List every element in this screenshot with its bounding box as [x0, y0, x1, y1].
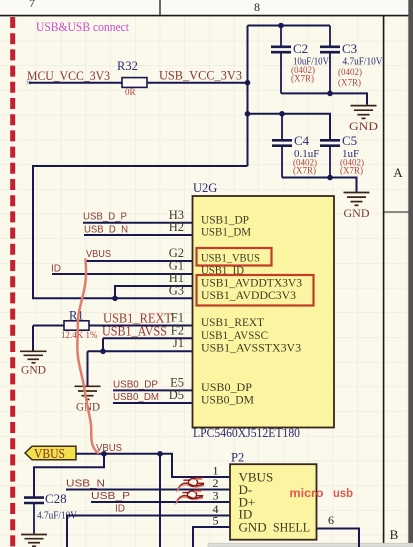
junction J1 [100, 349, 106, 355]
no-ERC cross [27, 81, 31, 85]
wire VBUS to C28 [34, 454, 104, 497]
svg-text:D5: D5 [169, 388, 184, 402]
svg-text:C2: C2 [293, 41, 308, 56]
svg-text:LPC5460XJ512ET180: LPC5460XJ512ET180 [193, 426, 300, 440]
wire USB_P pin3 [91, 501, 230, 503]
junction C4 top [279, 111, 285, 117]
resistor R1 [33, 325, 64, 327]
svg-text:H2: H2 [169, 220, 184, 234]
capacitor C2 [271, 26, 291, 94]
sheet top border [0, 15, 413, 17]
ground GND5 (C28) [21, 535, 47, 547]
wire VCC vertical column [247, 26, 249, 167]
svg-text:(0402): (0402) [338, 67, 362, 77]
svg-text:ID: ID [115, 504, 125, 515]
junction VCC column at 82.7 [245, 80, 251, 86]
svg-text:5: 5 [213, 514, 219, 528]
svg-text:USB_P: USB_P [91, 491, 130, 502]
wire ID pin4 [67, 516, 230, 547]
power port VBUS [25, 446, 76, 459]
wire C2 C3 top rail [248, 25, 331, 27]
svg-text:GND: GND [21, 363, 46, 377]
wire C2 C3 bottom rail [281, 93, 367, 104]
svg-text:USB_D_P: USB_D_P [83, 211, 127, 222]
capacitor C4 [272, 114, 292, 178]
junction VCC column at 113.8 [245, 111, 251, 117]
sheet right border [383, 15, 385, 547]
svg-text:3: 3 [213, 489, 219, 503]
annotation red box USB1_VBUS [197, 248, 272, 266]
svg-text:SHELL: SHELL [273, 520, 310, 535]
svg-text:G3: G3 [169, 283, 184, 297]
svg-text:R1: R1 [69, 309, 84, 323]
svg-text:(X7R): (X7R) [291, 73, 314, 83]
svg-text:7: 7 [29, 0, 35, 10]
svg-text:GND: GND [239, 520, 267, 535]
screen right dark edge [408, 0, 413, 547]
wire MCU_VCC_3V3 [29, 82, 122, 84]
wire to GND4 [87, 351, 89, 386]
svg-text:J1: J1 [173, 336, 184, 350]
resistor R32 [122, 78, 147, 88]
junction VBUS b [157, 451, 163, 457]
svg-text:R32: R32 [117, 59, 138, 73]
capacitor C3 [320, 26, 340, 94]
annotation scribble pin2 [177, 478, 204, 492]
wire AVDD feed (VCC to H1 G3) [33, 166, 248, 298]
zone tick top [159, 0, 161, 16]
svg-text:0R: 0R [125, 87, 136, 97]
svg-text:USB_N: USB_N [66, 479, 105, 490]
svg-text:4.7uF/10V: 4.7uF/10V [343, 56, 383, 68]
wire SHELL pin6 [317, 529, 360, 547]
svg-text:6: 6 [328, 513, 334, 527]
svg-text:USB0_DP: USB0_DP [113, 380, 158, 391]
svg-text:MCU_VCC_3V3: MCU_VCC_3V3 [27, 68, 110, 83]
bottom gray window band [208, 543, 413, 547]
capacitor C28 [24, 498, 44, 534]
svg-text:P2: P2 [231, 451, 244, 465]
wire USB_D_P [83, 222, 193, 224]
annotation freehand highlight line [77, 260, 98, 453]
wire F1 REXT [89, 325, 193, 327]
wire VBUS to pin1 [160, 454, 230, 477]
svg-text:C28: C28 [45, 491, 67, 506]
svg-text:U2G: U2G [193, 181, 217, 195]
ground GND1 (C2 C3) [351, 106, 377, 119]
wire H1 branch [115, 286, 193, 298]
junction C2 top [278, 23, 284, 29]
svg-text:A: A [393, 165, 403, 180]
annotation red box AVDD [197, 275, 314, 306]
wire C4 C5 bottom rail [282, 178, 357, 192]
wire GND pin5 [193, 527, 230, 547]
svg-text:VBUS: VBUS [96, 443, 122, 454]
svg-text:8: 8 [254, 0, 260, 14]
svg-text:USB1_AVSSTX3V3: USB1_AVSSTX3V3 [201, 340, 301, 354]
svg-text:VBUS: VBUS [86, 249, 111, 260]
svg-text:C4: C4 [294, 133, 310, 148]
annotation scribble pin3 [176, 490, 203, 504]
red dashed margin line [10, 17, 15, 547]
wire ID to G1 [52, 273, 193, 275]
svg-text:USB1_AVDDC3V3: USB1_AVDDC3V3 [201, 288, 296, 302]
svg-text:USB_D_N: USB_D_N [84, 224, 128, 235]
svg-text:B: B [390, 527, 399, 542]
svg-text:VBUS: VBUS [34, 446, 65, 461]
svg-text:GND: GND [344, 206, 370, 220]
svg-text:12.4K 1%: 12.4K 1% [61, 330, 98, 340]
junction AVDD branch [112, 296, 118, 302]
wire VBUS down column [159, 454, 161, 547]
wire J1 [88, 350, 193, 352]
wire E5 [113, 389, 193, 391]
junction C3 bottom [327, 91, 333, 97]
ground GND3 (R1) [20, 351, 47, 363]
svg-text:USB0_DM: USB0_DM [201, 393, 254, 407]
wire USB_N pin2 [66, 489, 230, 491]
svg-text:micro: micro [290, 486, 324, 500]
svg-text:USB0_DM: USB0_DM [113, 392, 159, 403]
svg-text:C5: C5 [342, 133, 357, 148]
zone tick right [384, 211, 413, 213]
svg-text:USB_VCC_3V3: USB_VCC_3V3 [159, 68, 242, 83]
wire R1 to GND [32, 326, 34, 351]
svg-text:usb: usb [333, 486, 353, 500]
svg-text:(X7R): (X7R) [338, 78, 361, 88]
svg-text:USB1_AVSS: USB1_AVSS [102, 324, 167, 339]
op-amp U2G body [193, 196, 335, 428]
svg-text:USB1_DM: USB1_DM [201, 225, 251, 239]
wire VBUS to G2 [86, 260, 193, 262]
ground GND4 (AVSS) [75, 386, 101, 399]
svg-text:(X7R): (X7R) [340, 165, 363, 175]
wire D5 [113, 402, 193, 404]
wire F2 AVSS [103, 338, 193, 351]
capacitor C5 [320, 140, 340, 177]
wire USB_D_N [84, 234, 193, 236]
junction C5 bottom [327, 175, 333, 181]
wire VBUS port to P2 [76, 453, 160, 455]
svg-text:(X7R): (X7R) [293, 165, 316, 175]
wire C4 C5 top rail [248, 114, 331, 140]
ground GND2 (C4 C5) [344, 193, 370, 206]
svg-text:C3: C3 [342, 41, 357, 56]
top margin strip [0, 0, 413, 15]
svg-text:GND: GND [349, 119, 378, 133]
junction VBUS a [101, 451, 107, 457]
connector P2 body [230, 464, 317, 540]
svg-text:ID: ID [51, 263, 61, 274]
svg-text:USB&USB connect: USB&USB connect [36, 19, 129, 34]
wire USB_VCC_3V3 [147, 82, 248, 84]
